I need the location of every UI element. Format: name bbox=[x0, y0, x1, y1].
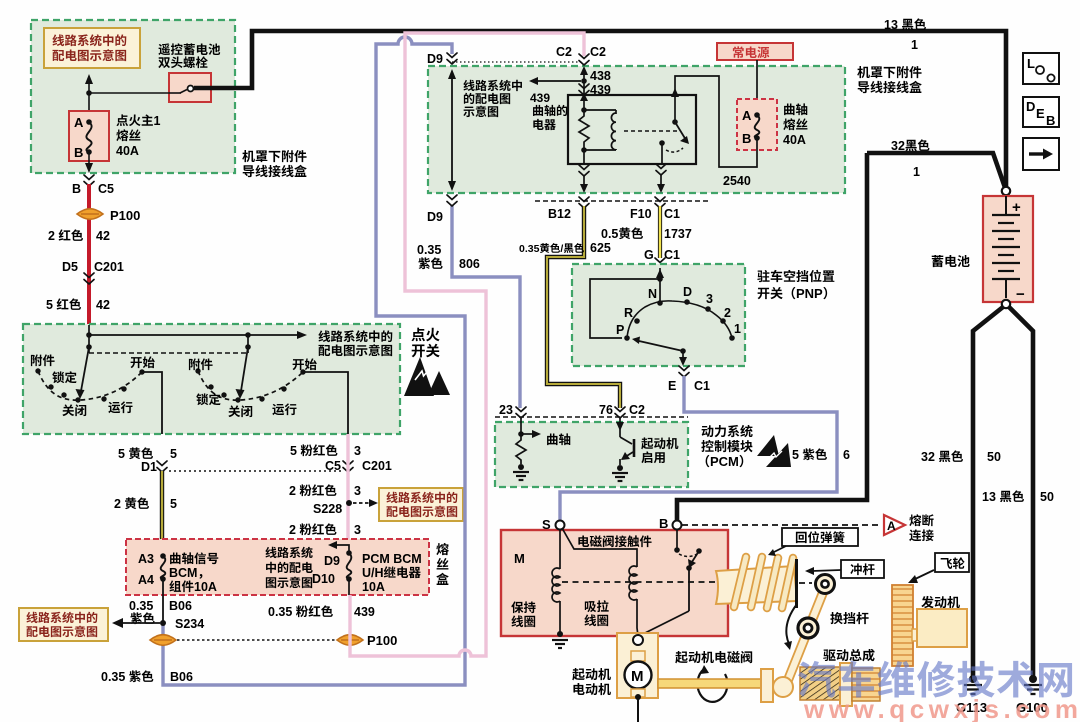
wire const power to crank fuse A bbox=[756, 60, 758, 115]
svg-text:1737: 1737 bbox=[664, 223, 692, 242]
svg-text:开始: 开始 bbox=[292, 354, 318, 373]
wire 2540 bbox=[675, 76, 757, 189]
fuse A3/A4 crank signal BCM 10A bbox=[138, 548, 219, 595]
svg-text:40A: 40A bbox=[783, 129, 806, 148]
svg-text:换挡杆: 换挡杆 bbox=[830, 608, 869, 627]
connector G/C1 bbox=[644, 244, 680, 269]
splice S228 with arrow to note box bbox=[313, 488, 463, 521]
svg-text:导线接线盒: 导线接线盒 bbox=[857, 77, 922, 96]
ground G100 bbox=[1016, 675, 1048, 716]
relay outline box bbox=[568, 95, 696, 164]
underhood junction box (top-left) bbox=[31, 20, 235, 173]
svg-text:10A: 10A bbox=[362, 576, 385, 595]
svg-text:13 黑色: 13 黑色 bbox=[982, 486, 1025, 505]
svg-text:C1: C1 bbox=[694, 375, 710, 394]
svg-text:2 红色: 2 红色 bbox=[48, 225, 84, 244]
svg-text:B: B bbox=[72, 178, 81, 197]
svg-text:起动机电磁阀: 起动机电磁阀 bbox=[675, 647, 753, 666]
svg-text:A: A bbox=[74, 112, 84, 131]
node: junction at fuse A feed bbox=[85, 74, 169, 122]
watermark bbox=[797, 650, 1078, 722]
svg-text:N: N bbox=[648, 283, 657, 302]
svg-text:M: M bbox=[514, 548, 525, 567]
note text in relay box bbox=[463, 77, 523, 120]
svg-text:电动机: 电动机 bbox=[572, 679, 611, 698]
svg-text:示意图: 示意图 bbox=[463, 103, 499, 120]
lever motion arrow bbox=[784, 604, 797, 650]
svg-text:C201: C201 bbox=[362, 455, 392, 474]
ignition switch box bbox=[23, 324, 400, 434]
svg-text:A4: A4 bbox=[138, 569, 154, 588]
svg-text:蓄电池: 蓄电池 bbox=[931, 251, 970, 270]
svg-text:S234: S234 bbox=[175, 613, 204, 632]
underhood junction box (center, relay) bbox=[428, 66, 845, 193]
svg-text:0.35 紫色: 0.35 紫色 bbox=[101, 666, 154, 685]
svg-text:2: 2 bbox=[724, 302, 731, 321]
svg-text:A: A bbox=[887, 517, 896, 534]
svg-text:运行: 运行 bbox=[272, 399, 298, 418]
svg-text:B: B bbox=[742, 128, 751, 147]
relay switch bbox=[659, 88, 689, 164]
svg-text:76: 76 bbox=[599, 399, 613, 418]
svg-text:D9: D9 bbox=[427, 206, 443, 225]
legend box DEB bbox=[1023, 96, 1059, 129]
svg-text:C2: C2 bbox=[556, 41, 572, 60]
svg-text:42: 42 bbox=[96, 294, 110, 313]
svg-text:42: 42 bbox=[96, 225, 110, 244]
svg-text:启用: 启用 bbox=[641, 447, 666, 466]
flywheel gear bbox=[892, 585, 918, 666]
svg-text:P: P bbox=[616, 319, 624, 338]
label flywheel bbox=[908, 553, 969, 583]
wire: 32 black 1 (junction to battery + and solenoid B) bbox=[677, 135, 1006, 520]
label PCM bbox=[697, 421, 753, 470]
terminal B bbox=[659, 513, 682, 532]
svg-text:3: 3 bbox=[354, 480, 361, 499]
relay coil bbox=[584, 110, 678, 150]
svg-text:D9: D9 bbox=[427, 48, 443, 67]
label 2 pink 3 (lower) bbox=[289, 519, 361, 538]
svg-text:回位弹簧: 回位弹簧 bbox=[795, 527, 845, 546]
svg-text:开关（PNP）: 开关（PNP） bbox=[757, 283, 836, 302]
wire: purple B06/806 long run bbox=[163, 37, 465, 685]
box constant power bbox=[717, 42, 793, 61]
svg-text:连接: 连接 bbox=[909, 525, 935, 544]
mechanical dashed link bbox=[562, 582, 812, 583]
svg-text:D5: D5 bbox=[62, 256, 78, 275]
shift lever bbox=[786, 590, 824, 685]
ground G113 bbox=[956, 675, 987, 716]
label ignition switch + esd triangles bbox=[404, 324, 450, 396]
fuse block (BCM) bbox=[126, 539, 429, 595]
svg-text:D10: D10 bbox=[312, 568, 335, 587]
label solenoid contacts bbox=[514, 531, 653, 567]
svg-text:R: R bbox=[624, 302, 633, 321]
label 2 pink 3 (upper) bbox=[289, 480, 361, 499]
svg-text:B: B bbox=[1046, 110, 1055, 129]
svg-text:C201: C201 bbox=[94, 256, 124, 275]
svg-text:P100: P100 bbox=[110, 205, 140, 224]
battery bbox=[983, 187, 1033, 308]
svg-text:C1: C1 bbox=[664, 203, 680, 222]
svg-text:冲杆: 冲杆 bbox=[850, 559, 876, 578]
label 0.35 purple B06 (lower) bbox=[101, 666, 193, 685]
PCM crank sense input bbox=[513, 418, 571, 480]
svg-text:5: 5 bbox=[170, 493, 177, 512]
label 0.35 pink 439 bbox=[268, 601, 375, 620]
label return spring bbox=[768, 527, 858, 556]
svg-text:B06: B06 bbox=[169, 595, 192, 614]
PNP switch box bbox=[572, 264, 745, 366]
label 439 crank accessories bbox=[530, 89, 568, 133]
svg-text:439: 439 bbox=[354, 601, 375, 620]
relay resistor bbox=[579, 107, 589, 153]
svg-text:导线接线盒: 导线接线盒 bbox=[242, 161, 307, 180]
svg-text:5: 5 bbox=[170, 443, 177, 462]
connector D9 bottom bbox=[427, 195, 457, 225]
rotation arrow bbox=[697, 665, 727, 702]
engine box bbox=[917, 592, 967, 647]
svg-text:C5: C5 bbox=[325, 455, 341, 474]
svg-text:50: 50 bbox=[1040, 486, 1054, 505]
svg-text:0.35 粉红色: 0.35 粉红色 bbox=[268, 601, 334, 620]
relay C2 entry 438/439 bbox=[579, 54, 611, 110]
legend box L bbox=[1023, 53, 1059, 84]
wire A4 to S234 bbox=[162, 581, 164, 623]
svg-text:A: A bbox=[742, 105, 752, 124]
wire: 0.5 yellow 1737 (F10 to PNP G) bbox=[601, 206, 692, 258]
mid pivot bbox=[798, 618, 818, 638]
svg-text:盒: 盒 bbox=[436, 569, 449, 588]
labels 0.35 purple B06 bbox=[129, 595, 192, 627]
svg-text:S: S bbox=[542, 514, 551, 533]
svg-text:飞轮: 飞轮 bbox=[940, 553, 966, 572]
svg-text:锁定: 锁定 bbox=[52, 367, 78, 386]
svg-text:常电源: 常电源 bbox=[732, 42, 770, 61]
svg-text:M: M bbox=[631, 665, 644, 686]
svg-text:B: B bbox=[659, 513, 668, 532]
ignition switch rotor 1 bbox=[30, 347, 162, 434]
arrow to note bbox=[529, 77, 581, 85]
svg-text:23: 23 bbox=[499, 399, 513, 418]
svg-text:L: L bbox=[1027, 53, 1035, 72]
svg-text:3: 3 bbox=[354, 440, 361, 459]
fuse: ignition main 1 40A bbox=[69, 110, 161, 161]
svg-text:关闭: 关闭 bbox=[228, 401, 253, 420]
svg-text:P100: P100 bbox=[367, 630, 397, 649]
svg-text:C5: C5 bbox=[98, 178, 114, 197]
svg-text:电磁阀接触件: 电磁阀接触件 bbox=[577, 531, 653, 550]
connector E/C1 bbox=[668, 366, 710, 394]
svg-text:C2: C2 bbox=[590, 41, 606, 60]
svg-text:2540: 2540 bbox=[723, 170, 751, 189]
svg-text:D: D bbox=[683, 281, 692, 300]
svg-text:配电图示意图: 配电图示意图 bbox=[318, 340, 393, 359]
svg-text:配电图示意图: 配电图示意图 bbox=[52, 45, 127, 64]
svg-text:50: 50 bbox=[987, 446, 1001, 465]
PNP contacts arc bbox=[616, 281, 741, 341]
svg-text:运行: 运行 bbox=[108, 397, 134, 416]
motor shaft bbox=[658, 679, 762, 688]
svg-text:13 黑色: 13 黑色 bbox=[884, 14, 927, 33]
svg-text:0.5黄色: 0.5黄色 bbox=[601, 223, 644, 242]
svg-text:1: 1 bbox=[913, 161, 920, 180]
solenoid moving contact bbox=[641, 530, 702, 635]
label starter solenoid bbox=[675, 647, 753, 666]
label 5 yellow 5 / D1 bbox=[118, 443, 177, 475]
label PNP bbox=[757, 266, 836, 302]
svg-text:B: B bbox=[74, 142, 83, 161]
wire: pink circuit 3 down to fuse block bbox=[346, 434, 349, 551]
svg-text:E: E bbox=[1036, 103, 1045, 122]
labels shift lever / drive assy bbox=[830, 608, 869, 627]
svg-text:C1: C1 bbox=[664, 244, 680, 263]
hold-in coil bbox=[511, 530, 568, 648]
fusible link dashed to A bbox=[682, 510, 935, 544]
svg-text:电器: 电器 bbox=[532, 116, 556, 133]
wire: 32 black 50 to G113 bbox=[921, 307, 1003, 676]
fuse: crank 40A bbox=[737, 99, 808, 150]
svg-text:配电图示意图: 配电图示意图 bbox=[386, 503, 458, 520]
svg-text:2 黄色: 2 黄色 bbox=[114, 493, 150, 512]
svg-text:线圈: 线圈 bbox=[584, 610, 609, 629]
svg-text:（PCM）: （PCM） bbox=[697, 451, 752, 470]
PNP entry bbox=[590, 268, 664, 338]
splice P100 bbox=[77, 205, 140, 224]
svg-text:2 粉红色: 2 粉红色 bbox=[289, 519, 337, 538]
svg-text:A3: A3 bbox=[138, 548, 154, 567]
return spring plunger bbox=[716, 557, 797, 608]
pass-through double arrow D9 bbox=[448, 69, 456, 191]
pull-in coil bbox=[562, 528, 638, 636]
svg-text:0.35黄色/黑色: 0.35黄色/黑色 bbox=[519, 241, 585, 256]
svg-text:D: D bbox=[1026, 96, 1035, 115]
PNP wiper bbox=[632, 337, 687, 367]
svg-text:5 紫色: 5 紫色 bbox=[792, 444, 828, 463]
label underhood box (right) bbox=[857, 62, 922, 96]
svg-text:D9: D9 bbox=[324, 550, 340, 569]
svg-text:S228: S228 bbox=[313, 498, 342, 517]
label 2 red 42 bbox=[48, 225, 110, 244]
svg-text:1: 1 bbox=[734, 318, 741, 337]
svg-text:曲轴: 曲轴 bbox=[546, 429, 571, 448]
label fuse block (vertical) bbox=[436, 539, 449, 588]
svg-text:图示意图: 图示意图 bbox=[265, 574, 313, 591]
drive assembly spline bbox=[800, 663, 880, 706]
svg-text:32黑色: 32黑色 bbox=[891, 135, 930, 154]
svg-text:紫色: 紫色 bbox=[130, 608, 156, 627]
PCM box bbox=[495, 422, 688, 487]
dotted connector line C2 top bbox=[452, 61, 584, 63]
svg-text:开始: 开始 bbox=[130, 352, 156, 371]
label 5 red 42 bbox=[46, 294, 110, 313]
svg-text:5 红色: 5 红色 bbox=[46, 294, 82, 313]
wire: 2 yellow 5 (olive) bbox=[114, 471, 177, 556]
connector D9 top bbox=[427, 48, 457, 67]
remote battery stud switch box bbox=[169, 73, 211, 102]
svg-text:www.qcwxjs.com: www.qcwxjs.com bbox=[803, 689, 1078, 722]
label 13 black 1 bbox=[884, 14, 927, 53]
label plunger bbox=[805, 559, 884, 578]
fuse D9/D10 PCM BCM relay 10A bbox=[312, 541, 422, 595]
svg-text:开关: 开关 bbox=[411, 340, 440, 361]
note box: wiring distribution schematic bbox=[44, 28, 140, 68]
wire stub + arrow below fuse B bbox=[85, 152, 93, 173]
svg-text:2 粉红色: 2 粉红色 bbox=[289, 480, 337, 499]
wire: 2 red 42 bbox=[87, 184, 91, 336]
svg-text:G: G bbox=[644, 244, 654, 263]
label 5 pink 3 / C5 C201 bbox=[290, 440, 392, 474]
connector C2 labels bbox=[556, 41, 606, 60]
svg-text:6: 6 bbox=[843, 444, 850, 463]
lever ball joint bbox=[773, 677, 793, 697]
svg-text:3: 3 bbox=[706, 288, 713, 307]
svg-text:附件: 附件 bbox=[188, 354, 214, 373]
svg-text:配电图示意图: 配电图示意图 bbox=[26, 623, 98, 640]
svg-text:3: 3 bbox=[354, 519, 361, 538]
svg-text:双头螺栓: 双头螺栓 bbox=[158, 52, 209, 71]
svg-text:B06: B06 bbox=[170, 666, 193, 685]
note text in ignition box bbox=[318, 326, 393, 359]
svg-text:关闭: 关闭 bbox=[62, 400, 87, 419]
svg-text:32 黑色: 32 黑色 bbox=[921, 446, 964, 465]
svg-text:组件10A: 组件10A bbox=[169, 576, 217, 595]
connector line below relay box bbox=[535, 197, 710, 222]
connector C201 dotted line bbox=[157, 461, 353, 472]
svg-text:线圈: 线圈 bbox=[511, 611, 536, 630]
svg-text:40A: 40A bbox=[116, 140, 139, 159]
splice S234 bbox=[160, 613, 204, 632]
svg-text:紫色: 紫色 bbox=[418, 253, 444, 272]
wire: 13 black thick from stud to battery bbox=[194, 31, 1006, 187]
wire: 0.35 yellow/black 625 (B12 to PCM 76) bbox=[519, 206, 620, 408]
label starter motor bbox=[572, 664, 611, 698]
bell crank top pivot bbox=[816, 575, 835, 594]
svg-text:D1: D1 bbox=[141, 456, 157, 475]
note box bottom-left with arrow bbox=[19, 608, 160, 641]
note text in fuse block bbox=[265, 544, 313, 591]
PCM connector line bbox=[495, 399, 688, 418]
label: remote battery stud bbox=[158, 39, 221, 71]
svg-text:−: − bbox=[1016, 283, 1025, 304]
starter solenoid box bbox=[501, 530, 728, 636]
wire: 13 black 50 to G100 bbox=[982, 307, 1054, 676]
svg-text:+: + bbox=[1012, 196, 1021, 217]
splice P100 pair with dotted tie bbox=[150, 630, 397, 649]
starter motor box bbox=[617, 633, 658, 722]
PCM esd triangles bbox=[757, 435, 791, 467]
wire: purple 0.35 806 (relay D9 to PCM 23) bbox=[417, 205, 520, 408]
ignition feed lines bbox=[86, 325, 307, 353]
relay legs to C1/C2 connectors bbox=[579, 150, 666, 193]
svg-text:1: 1 bbox=[911, 34, 918, 53]
wire: 5 purple 6 (PNP E to solenoid S) bbox=[560, 376, 850, 521]
svg-text:B12: B12 bbox=[548, 203, 571, 222]
wire: pink 439 long run (D10 to relay C2) bbox=[350, 33, 584, 656]
connector D5/C201 bbox=[62, 256, 124, 284]
label battery bbox=[931, 251, 970, 270]
legend box arrow bbox=[1023, 138, 1059, 170]
svg-text:F10: F10 bbox=[630, 203, 652, 222]
connector B/C5 bbox=[72, 175, 114, 197]
PCM starter enable transistor bbox=[612, 418, 679, 481]
ignition switch rotor 2 bbox=[188, 347, 348, 434]
label: underhood box (left) bbox=[242, 146, 307, 180]
svg-text:806: 806 bbox=[459, 253, 480, 272]
svg-text:E: E bbox=[668, 375, 676, 394]
shift fork bar bbox=[761, 669, 773, 702]
svg-text:锁定: 锁定 bbox=[196, 389, 222, 408]
svg-text:C2: C2 bbox=[629, 399, 645, 418]
terminal S bbox=[542, 514, 565, 533]
